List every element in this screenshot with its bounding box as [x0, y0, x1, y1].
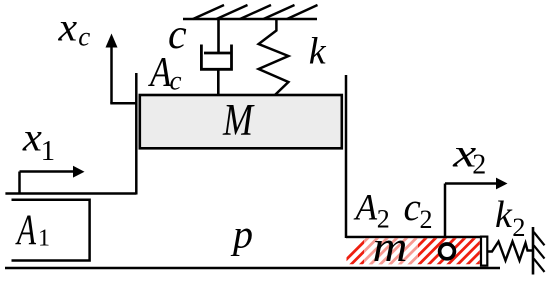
svg-text:2: 2	[377, 204, 390, 233]
svg-text:x: x	[22, 115, 42, 160]
mass M rectangle	[140, 95, 342, 148]
piston A1 (open left)	[12, 200, 90, 261]
svg-text:1: 1	[38, 226, 50, 252]
ceiling hatch 1	[193, 5, 224, 19]
svg-text:x: x	[57, 5, 77, 50]
arrow x_1	[18, 172, 21, 194]
svg-text:2: 2	[512, 212, 525, 242]
svg-text:k: k	[495, 194, 513, 236]
ground line	[5, 267, 500, 270]
svg-text:A: A	[353, 188, 378, 229]
cylinder right wall	[345, 75, 348, 238]
damper c rod upper	[217, 19, 220, 53]
svg-text:2: 2	[472, 150, 486, 181]
right wall hatch 2	[534, 245, 545, 258]
cylinder left wall	[135, 73, 138, 195]
ceiling hatch 3	[240, 5, 271, 19]
roller circle on m	[440, 244, 455, 259]
spring k	[259, 19, 289, 96]
arrow x_c connector	[110, 102, 136, 105]
svg-text:M: M	[222, 95, 255, 145]
right wall hatch 3	[534, 259, 545, 272]
right wall hatch 1	[534, 232, 545, 245]
end plate bar	[481, 237, 487, 266]
arrow x_2 horizontal	[445, 182, 496, 185]
svg-text:A: A	[147, 50, 171, 96]
svg-text:k: k	[309, 30, 327, 72]
spring k2	[488, 242, 534, 261]
ceiling hatch 5	[287, 5, 318, 19]
right wall	[532, 227, 535, 275]
svg-text:c: c	[78, 21, 90, 51]
ceiling hatch 4	[264, 5, 295, 19]
svg-text:c: c	[404, 186, 421, 229]
mass m red hatched block	[339, 236, 516, 268]
damper c rod lower	[217, 69, 220, 95]
svg-text:A: A	[15, 207, 37, 254]
ceiling hatch 2	[217, 5, 248, 19]
svg-text:2: 2	[420, 205, 433, 234]
damper c cup	[201, 45, 231, 70]
arrow x_c vertical	[110, 45, 113, 104]
ceiling line	[183, 18, 317, 21]
svg-text:p: p	[230, 212, 253, 257]
arrow x_c head	[106, 34, 118, 48]
chamber top line	[5, 192, 136, 194]
svg-text:1: 1	[41, 135, 56, 167]
damper c piston plate	[204, 52, 232, 55]
svg-text:c: c	[170, 66, 182, 96]
m block top line	[346, 236, 483, 239]
arrow x_2 vertical	[444, 184, 447, 238]
